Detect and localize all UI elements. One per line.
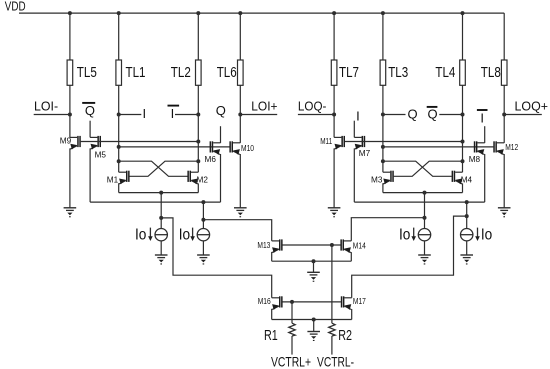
wire gate B right (node Q to M8,M12 gates) (383, 146, 494, 148)
wire TL6 to node LOI+ (239, 85, 241, 143)
node Q wire (383, 114, 406, 116)
svg-text:M7: M7 (359, 148, 371, 158)
node I wire (119, 114, 142, 116)
current source Io3 (418, 229, 430, 241)
current source Io4 (461, 229, 473, 241)
wire VDD to TL1 (118, 13, 120, 60)
wire M16-M17 gates to R1 (291, 302, 293, 323)
node LOI- (34, 114, 70, 116)
node LOI+ (240, 114, 277, 116)
transmission line TL2 (196, 60, 202, 85)
svg-text:M1: M1 (107, 175, 119, 185)
wire Qbar to M5 drain (89, 121, 91, 138)
svg-text:M8: M8 (469, 154, 481, 164)
wire M16-M17 source join (272, 319, 352, 321)
wire VDD to TL3 (382, 13, 384, 60)
wire M4 gate to node Q (383, 161, 452, 176)
svg-text:VCTRL-: VCTRL- (317, 354, 354, 369)
wire I to M7 drain (353, 121, 355, 138)
wire VDD rail (19, 12, 504, 14)
wire Io4 to ground (466, 241, 468, 255)
junction VDD rail / TL3 column (381, 11, 385, 15)
arrow Io1 (148, 228, 153, 241)
svg-text:TL5: TL5 (77, 64, 97, 81)
resistor R1 (289, 323, 295, 336)
svg-text:M4: M4 (461, 175, 473, 185)
svg-text:I: I (356, 108, 360, 123)
wire M7 source (353, 148, 355, 202)
wire VDD to TL2 (197, 13, 199, 60)
svg-text:Q: Q (216, 103, 226, 118)
svg-text:Io: Io (135, 226, 147, 243)
svg-text:M12: M12 (505, 142, 518, 152)
transistor M14 (340, 239, 351, 253)
wire M1 gate to node Ibar (130, 161, 199, 176)
transistor M9 (70, 136, 81, 150)
transistor M16 (272, 296, 283, 310)
wire to Io3 (424, 193, 426, 229)
wire M16-M17 gates (283, 301, 341, 303)
wire M1 source (118, 183, 120, 192)
transmission line TL8 (501, 60, 507, 85)
wire R1 to VCTRL+ (291, 336, 293, 355)
wire M14 source (350, 252, 352, 261)
svg-text:TL1: TL1 (126, 64, 146, 81)
svg-text:M5: M5 (95, 149, 107, 159)
wire Io1 to ground (160, 241, 162, 255)
node Ibar wire (175, 114, 198, 116)
svg-text:Q: Q (85, 103, 95, 118)
wire to ground M13-M14 (313, 261, 315, 272)
wire M16 source (271, 309, 273, 320)
transistor M12 (493, 141, 504, 155)
wire M5 source (89, 148, 91, 202)
wire M5-M6 source join (90, 201, 220, 203)
transistor M5 (90, 136, 101, 150)
ground Io1 (155, 255, 168, 265)
svg-text:M14: M14 (353, 241, 366, 251)
transistor M13 (272, 239, 283, 253)
wire TL8 to node LOQ+ (503, 85, 505, 143)
junction VDD rail / TL7 column (332, 11, 336, 15)
transmission line TL1 (116, 60, 122, 85)
wire M9 source to ground (69, 148, 71, 207)
wire R2 to VCTRL- (331, 336, 333, 355)
wire VDD to TL7 (333, 13, 335, 60)
ground Io2 (197, 255, 210, 265)
wire M2 gate to node I (119, 161, 188, 176)
svg-text:VDD: VDD (5, 0, 26, 14)
svg-text:M13: M13 (257, 240, 270, 250)
transistor M6 (210, 141, 221, 155)
wire to Io4 (466, 202, 468, 228)
svg-text:M6: M6 (205, 154, 217, 164)
ground M13-M14 (307, 272, 320, 282)
wire gate A right (M11,M7 gates to node Qbar) (345, 141, 463, 143)
transmission line TL5 (67, 60, 73, 85)
svg-text:I: I (142, 106, 146, 121)
ground M11 (328, 208, 341, 218)
junction VDD rail / TL6 column (238, 11, 242, 15)
svg-text:M10: M10 (241, 143, 254, 153)
svg-text:M17: M17 (353, 296, 366, 306)
wire M10 source to ground (239, 154, 241, 208)
wire M11 source to ground (333, 148, 335, 207)
wire TL4 column (node Qbar) (462, 85, 464, 172)
wire M13 source (271, 252, 273, 261)
svg-text:LOQ-: LOQ- (298, 99, 327, 114)
svg-text:Io: Io (481, 226, 493, 243)
svg-text:I: I (171, 106, 175, 121)
wire to ground M16-M17 (313, 320, 315, 332)
arrow Io4 (475, 228, 480, 241)
wire Io3 to ground (424, 241, 426, 255)
wire gate B left (node I to M6,M10 gates) (119, 146, 230, 148)
wire VDD to TL4 (462, 13, 464, 60)
wire VDD to TL8 (503, 13, 505, 60)
wire to Io2 (202, 202, 204, 228)
svg-text:VCTRL+: VCTRL+ (271, 354, 311, 369)
wire VDD to TL5 (69, 13, 71, 60)
transistor M3 (383, 171, 394, 185)
svg-text:M11: M11 (320, 136, 332, 146)
svg-text:R1: R1 (264, 328, 278, 344)
junction VDD rail / TL5 column (68, 11, 72, 15)
wire M8 source (484, 154, 486, 202)
svg-text:M9: M9 (60, 135, 72, 145)
transmission line TL4 (460, 60, 466, 85)
transistor M8 (474, 141, 485, 155)
transistor M17 (341, 296, 352, 310)
wire M2 source (197, 183, 199, 192)
svg-text:Io: Io (399, 226, 411, 243)
svg-text:TL6: TL6 (217, 64, 237, 81)
svg-text:M3: M3 (371, 175, 383, 185)
transistor M7 (354, 136, 365, 150)
transistor M4 (452, 171, 463, 185)
svg-text:TL3: TL3 (388, 64, 408, 81)
transmission line TL7 (331, 60, 337, 85)
svg-text:I: I (480, 110, 484, 125)
svg-text:R2: R2 (338, 328, 352, 344)
wire M14 drain to Io3 node (351, 218, 424, 241)
ground M16-M17 (307, 332, 320, 342)
svg-text:LOQ+: LOQ+ (515, 99, 549, 114)
wire gate A left (M9,M5 gates to node Ibar) (81, 141, 199, 143)
transistor M1 (119, 171, 130, 185)
wire Ibar to M8 drain (484, 126, 486, 143)
wire VDD to TL6 (239, 13, 241, 60)
svg-text:Q: Q (407, 106, 417, 121)
wire M3 gate to node Qbar (394, 161, 463, 176)
junction VDD rail / TL1 column (117, 11, 121, 15)
svg-text:LOI+: LOI+ (251, 99, 277, 114)
ground Io3 (418, 255, 431, 265)
wire Q to M6 drain (220, 126, 222, 143)
ground M12 (498, 208, 511, 218)
wire M13-M14 gates (283, 244, 341, 246)
transistor M10 (229, 141, 240, 155)
current source Io1 (155, 229, 167, 241)
wire M13-M14 gates to R2 (331, 245, 333, 323)
node LOQ- (298, 114, 334, 116)
wire M4 source (462, 183, 464, 192)
wire Io1 node to M16 drain (161, 218, 272, 298)
wire Io2 node to M13 drain (203, 220, 271, 241)
svg-text:TL8: TL8 (481, 64, 501, 81)
transistor M11 (334, 136, 345, 150)
wire to Io1 (160, 193, 162, 229)
svg-text:TL7: TL7 (339, 64, 359, 81)
wire M3 source (382, 183, 384, 192)
transmission line TL3 (380, 60, 386, 85)
ground M10 (234, 208, 247, 218)
svg-text:M16: M16 (258, 296, 271, 306)
ground Io4 (460, 255, 473, 265)
wire Io4 node to M17 drain (352, 216, 467, 298)
junction VDD rail / TL2 column (196, 11, 200, 15)
wire TL5 to node LOI- (69, 85, 71, 137)
svg-text:TL4: TL4 (435, 64, 455, 81)
wire TL1 column (node I) (118, 85, 120, 172)
arrow Io3 (411, 228, 416, 241)
wire M12 source to ground (503, 154, 505, 208)
wire TL3 column (node Q) (382, 85, 384, 172)
svg-text:LOI-: LOI- (34, 99, 58, 114)
svg-text:M2: M2 (197, 175, 209, 185)
wire TL7 to node LOQ- (333, 85, 335, 137)
ground M9 (64, 208, 77, 218)
wire TL2 column (node Ibar) (197, 85, 199, 172)
wire M6 source (220, 154, 222, 202)
node LOQ+ (504, 114, 542, 116)
wire M17 source (351, 309, 353, 320)
arrow Io2 (190, 228, 195, 241)
wire M3-M4 source join (383, 192, 463, 194)
wire M1-M2 source join (119, 192, 199, 194)
svg-text:Q: Q (428, 106, 438, 121)
transistor M2 (187, 171, 198, 185)
wire Io2 to ground (202, 241, 204, 255)
svg-text:TL2: TL2 (171, 64, 191, 81)
junction VDD rail / TL4 column (461, 11, 465, 15)
svg-text:Io: Io (179, 226, 191, 243)
current source Io2 (197, 229, 209, 241)
resistor R2 (329, 323, 335, 336)
wire M13-M14 source join (272, 260, 352, 262)
wire M7-M8 source join (354, 201, 484, 203)
node Qbar wire (439, 114, 462, 116)
transmission line TL6 (238, 60, 244, 85)
